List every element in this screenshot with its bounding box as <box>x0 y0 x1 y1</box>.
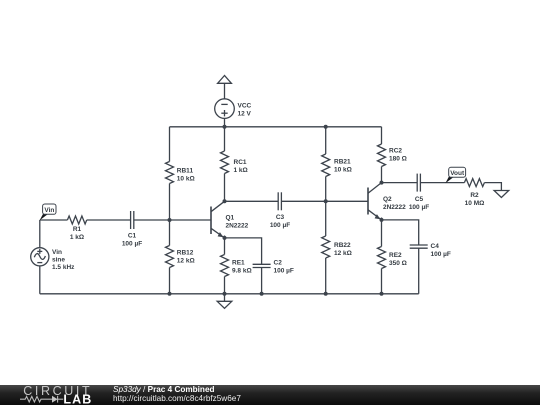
source VCC <box>215 99 235 119</box>
wire RB11 to base node <box>169 184 171 221</box>
svg-text:RB21: RB21 <box>334 159 351 166</box>
capacitor C1 <box>131 211 134 229</box>
svg-text:100 µF: 100 µF <box>270 222 290 229</box>
wire Q1 base <box>170 219 212 221</box>
svg-text:RB12: RB12 <box>177 250 194 257</box>
resistor RB21 <box>322 154 330 177</box>
svg-text:10 kΩ: 10 kΩ <box>334 167 352 174</box>
source Vin sine <box>31 248 49 266</box>
wire Q2 emitter to C4 <box>382 220 419 245</box>
wire Vin source branch <box>39 220 41 248</box>
svg-text:10 MΩ: 10 MΩ <box>465 200 485 207</box>
svg-text:RC1: RC1 <box>234 159 247 166</box>
svg-text:100 µF: 100 µF <box>274 268 294 275</box>
wire C3 to node B2 <box>281 200 325 202</box>
wire C5 to R2 <box>420 182 464 184</box>
power flag VCC triangle <box>218 76 232 99</box>
wire RC1 top <box>224 127 226 151</box>
wire node B2 to Q2 base <box>326 200 368 202</box>
svg-text:C4: C4 <box>431 243 440 250</box>
resistor RC2 <box>378 144 386 167</box>
node tag Vout <box>445 167 465 183</box>
resistor R1 <box>67 216 86 224</box>
wire Q1 collector to C3 <box>225 200 279 202</box>
capacitor C5 <box>417 174 420 192</box>
svg-text:VCC: VCC <box>238 103 252 110</box>
wire RE1 to rail <box>224 277 226 294</box>
svg-text:100 µF: 100 µF <box>409 204 429 211</box>
wire RE2 to rail <box>381 269 383 294</box>
wire RC1 to Q1 collector <box>224 174 226 202</box>
svg-text:RC2: RC2 <box>389 148 402 155</box>
wire RB12 to rail <box>169 268 171 294</box>
svg-text:350 Ω: 350 Ω <box>389 260 407 267</box>
svg-text:C5: C5 <box>415 196 424 203</box>
logo CircuitLab <box>0 382 100 406</box>
svg-text:100 µF: 100 µF <box>122 241 142 248</box>
transistor Q1 <box>211 201 225 238</box>
ground under Q1 <box>217 294 232 309</box>
svg-text:RB22: RB22 <box>334 242 351 249</box>
wire C4 to rail <box>418 248 420 294</box>
wire Q2 collector to C5 <box>382 182 418 184</box>
wire RB22 to rail <box>325 258 327 294</box>
svg-text:Q2: Q2 <box>383 196 392 203</box>
footer bar <box>0 385 540 405</box>
wire Vin source to rail <box>39 266 41 294</box>
svg-text:Q1: Q1 <box>226 215 235 222</box>
wire C1 to base node <box>134 219 170 221</box>
svg-text:RE1: RE1 <box>232 260 245 267</box>
svg-text:2N2222: 2N2222 <box>383 204 406 211</box>
wire RC2 branch top <box>381 127 383 144</box>
svg-text:C1: C1 <box>128 233 137 240</box>
svg-text:Vout: Vout <box>450 170 465 177</box>
svg-text:LAB: LAB <box>63 393 92 406</box>
wire Q1 emitter down <box>224 236 226 255</box>
svg-text:R1: R1 <box>73 226 82 233</box>
capacitor C3 <box>278 192 281 210</box>
svg-text:100 µF: 100 µF <box>431 251 451 258</box>
node tag Vin <box>40 204 56 220</box>
svg-text:12 kΩ: 12 kΩ <box>334 250 352 257</box>
resistor RC1 <box>221 151 229 174</box>
ground right <box>494 191 509 198</box>
capacitor C4 <box>410 245 428 248</box>
wire Q1 emitter to C2 <box>225 238 262 264</box>
wire RB21 branch <box>325 127 327 154</box>
svg-text:C2: C2 <box>274 260 283 267</box>
capacitor C2 <box>253 264 271 267</box>
resistor RB11 <box>166 162 174 184</box>
resistor R2 <box>464 179 484 187</box>
svg-text:12 V: 12 V <box>238 111 252 118</box>
resistor RE1 <box>221 255 229 277</box>
wire RB21 to node B2 <box>325 177 327 202</box>
resistor RB12 <box>166 246 174 268</box>
svg-text:C3: C3 <box>276 214 285 221</box>
svg-text:2N2222: 2N2222 <box>226 223 249 230</box>
wire RB11 branch top <box>169 127 171 162</box>
wire top rail <box>170 126 382 128</box>
svg-text:12 kΩ: 12 kΩ <box>177 258 195 265</box>
resistor RB22 <box>322 236 330 258</box>
wire Q2 emitter down <box>381 218 383 247</box>
wire RC2 to Q2 collector <box>381 167 383 183</box>
svg-text:1.5 kHz: 1.5 kHz <box>52 264 75 271</box>
svg-text:RB11: RB11 <box>177 168 194 175</box>
svg-text:10 kΩ: 10 kΩ <box>177 176 195 183</box>
svg-text:sine: sine <box>52 257 65 264</box>
wire R1 to C1 <box>87 219 131 221</box>
svg-text:RE2: RE2 <box>389 252 402 259</box>
svg-text:1 kΩ: 1 kΩ <box>234 167 248 174</box>
svg-text:Vin: Vin <box>52 249 62 256</box>
wire node B2 to RB22 <box>325 201 327 236</box>
svg-text:R2: R2 <box>470 192 479 199</box>
wire bottom rail <box>40 293 419 295</box>
svg-text:9.8 kΩ: 9.8 kΩ <box>232 268 252 275</box>
wire Vin to R1 <box>40 219 68 221</box>
resistor RE2 <box>378 247 386 269</box>
junction dots <box>168 125 384 296</box>
svg-text:1 kΩ: 1 kΩ <box>70 234 84 241</box>
svg-text:Vin: Vin <box>44 207 54 214</box>
wire base node to RB12 <box>169 220 171 246</box>
wire C2 to rail <box>261 268 263 294</box>
wire VCC to rail <box>224 118 226 126</box>
svg-text:180 Ω: 180 Ω <box>389 156 407 163</box>
wire R2 to ground <box>484 183 501 191</box>
transistor Q2 <box>368 183 382 220</box>
